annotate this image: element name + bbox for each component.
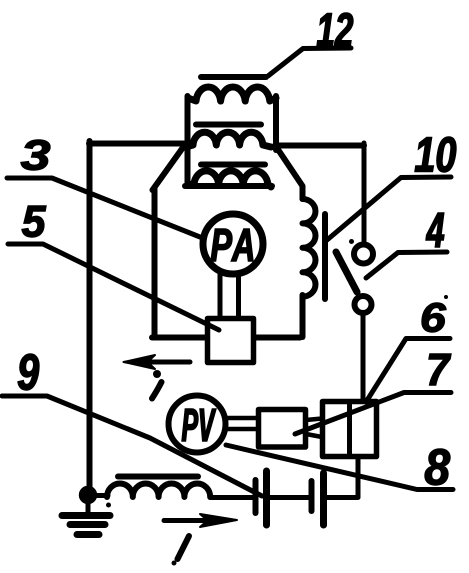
ink speck near switch [349, 239, 354, 244]
transformer 12: right box edge [273, 96, 279, 150]
switch 4 lever [336, 252, 357, 292]
label i body [152, 382, 162, 399]
core bar of winding 10 [322, 214, 328, 299]
transformer 12: winding 2 [186, 132, 271, 147]
core outline right chamfer [277, 148, 303, 199]
transformer 12: third bar [201, 162, 265, 168]
transformer 12: winding 3 [188, 171, 271, 187]
wire PV to box lower [226, 427, 258, 432]
leader line 9 [2, 396, 262, 496]
core outline bottom edge [152, 335, 300, 341]
ink speck below label I [172, 561, 177, 566]
label 3 [21, 140, 50, 170]
leader line 3 [7, 178, 200, 237]
switch 4 fixed contact circle [354, 245, 373, 264]
arrow I [164, 518, 210, 523]
transformer 12: top bar [201, 74, 266, 80]
ground bar 3 [77, 531, 99, 538]
battery cell2 long plate [320, 473, 327, 525]
leader line 7 [295, 393, 451, 435]
label 7 [429, 354, 451, 385]
label i dot [153, 370, 161, 378]
core outline right edge lower [300, 295, 306, 337]
box 6 outer [323, 402, 377, 457]
label 6 [422, 303, 446, 332]
label I current [178, 536, 190, 559]
wire box7 to box6 upper [306, 419, 322, 421]
label 4 [426, 213, 444, 247]
arrow i [148, 360, 190, 365]
junction dot [80, 487, 97, 504]
ink speck near junction [106, 503, 111, 508]
ammeter stem left line [218, 273, 223, 318]
leader line 5 [8, 244, 219, 330]
ammeter PA text [211, 229, 253, 261]
leader line 4 [366, 252, 447, 278]
choke coil arcs [107, 484, 210, 497]
label 8 [425, 449, 450, 485]
label 9 [18, 354, 39, 390]
ammeter PA circle [203, 214, 263, 274]
transformer 12: winding 1 [188, 87, 276, 101]
wire top bus left segment [89, 141, 185, 147]
transformer 12: middle bar [196, 122, 261, 128]
label 12 [317, 13, 353, 46]
shunt box 5 [208, 319, 254, 363]
voltmeter PV circle [169, 396, 226, 453]
box 7 [259, 410, 306, 448]
label 5 [22, 206, 46, 237]
ink speck above label 6 [444, 295, 448, 299]
transformer 12: bottom box edge [185, 183, 272, 189]
ground stem [86, 500, 91, 512]
ammeter stem right line [236, 273, 241, 318]
switch 4 moving contact circle [355, 296, 372, 313]
leader line 10 [327, 177, 451, 240]
voltmeter PV text [182, 409, 216, 441]
battery cell2 short plate [309, 481, 315, 511]
wire box7 to box6 lower [306, 434, 322, 437]
transformer 12: left box edge [185, 96, 191, 185]
leader line 8 [226, 445, 453, 490]
leader line 12 [268, 48, 351, 76]
ground bar 1 [62, 512, 110, 519]
battery cell1 short plate [253, 480, 259, 513]
wire switch to box6 [361, 315, 366, 401]
label 10 [415, 137, 456, 172]
wire between battery cells [270, 495, 308, 500]
wire PV to box upper [226, 416, 258, 421]
wire top bus right segment [275, 143, 364, 149]
battery cell1 long plate [263, 471, 270, 525]
wire left rail [87, 141, 93, 494]
box 6 divider [347, 402, 352, 457]
leader line 6 [366, 339, 450, 403]
choke core bar [118, 474, 198, 480]
wire box6 down to battery [327, 457, 358, 498]
wire right rail to switch [362, 143, 367, 243]
wire battery to choke [210, 495, 253, 500]
wire dot to choke [88, 493, 108, 498]
ground bar 2 [70, 521, 105, 528]
core outline left edge [152, 188, 158, 337]
winding 10 arcs on right limb [303, 199, 316, 297]
core outline left chamfer [153, 146, 185, 190]
